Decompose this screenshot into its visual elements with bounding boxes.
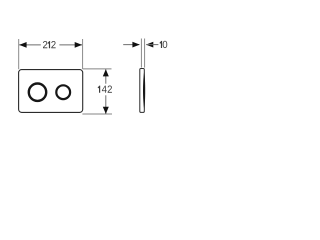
arrow down of 142	[103, 107, 109, 114]
dimension line 212 right segment	[59, 44, 82, 46]
plate front view outline	[19, 70, 83, 113]
label 10	[160, 41, 168, 48]
side profile convex lens	[143, 72, 145, 110]
side profile outline	[140, 69, 145, 113]
dimension line 142 lower segment	[105, 95, 107, 114]
extension line left of 212	[18, 39, 20, 69]
extension tick top of 142	[83, 68, 112, 70]
arrow right of 212	[75, 42, 82, 48]
label 212	[43, 41, 56, 48]
right button circle	[56, 85, 70, 99]
dimension line 10 left segment	[123, 44, 139, 46]
left button circle	[29, 84, 46, 101]
dimension line 142 upper segment	[105, 69, 107, 83]
arrow pointing left at 10	[146, 42, 153, 48]
arrow up of 142	[103, 69, 109, 76]
arrow pointing right at 10	[132, 42, 139, 48]
dimension line 10 right segment	[146, 44, 158, 46]
extension line right of 212	[82, 39, 84, 69]
extension line left of 10	[140, 39, 142, 68]
extension line right of 10	[144, 39, 146, 68]
arrow left of 212	[19, 42, 26, 48]
dimension line 212 left segment	[19, 44, 41, 46]
label 142	[98, 85, 112, 92]
extension tick bottom of 142	[82, 113, 112, 115]
